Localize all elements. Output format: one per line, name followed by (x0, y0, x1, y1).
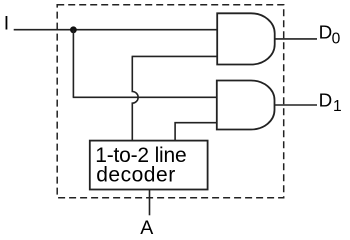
svg-text:0: 0 (332, 31, 341, 48)
svg-text:I: I (4, 13, 9, 35)
node junction dot on I wire (70, 26, 77, 33)
wire input I horizontal (14, 29, 218, 31)
wire from junction down (72, 30, 74, 98)
wire output D0 (275, 38, 317, 40)
wire output D1 (275, 104, 318, 106)
svg-text:1: 1 (333, 98, 342, 115)
svg-text:decoder: decoder (96, 164, 175, 187)
AND gate bottom (D1) (217, 81, 275, 130)
wire horizontal to top AND gate input 2 (132, 55, 218, 57)
AND gate top (D0) (217, 13, 275, 64)
wire decoder output 1: L to bottom AND gate input 2 (175, 123, 217, 141)
dashed demux boundary box (57, 5, 284, 198)
wire horizontal to bottom AND gate input 1 (73, 96, 218, 98)
svg-text:D: D (319, 22, 333, 43)
wire decoder output 0: vertical with hop over horizontal wire (132, 56, 138, 140)
wire select input A vertical (149, 190, 151, 216)
svg-text:A: A (140, 217, 153, 239)
decoder box U1 (90, 141, 208, 190)
svg-text:D: D (319, 90, 333, 111)
